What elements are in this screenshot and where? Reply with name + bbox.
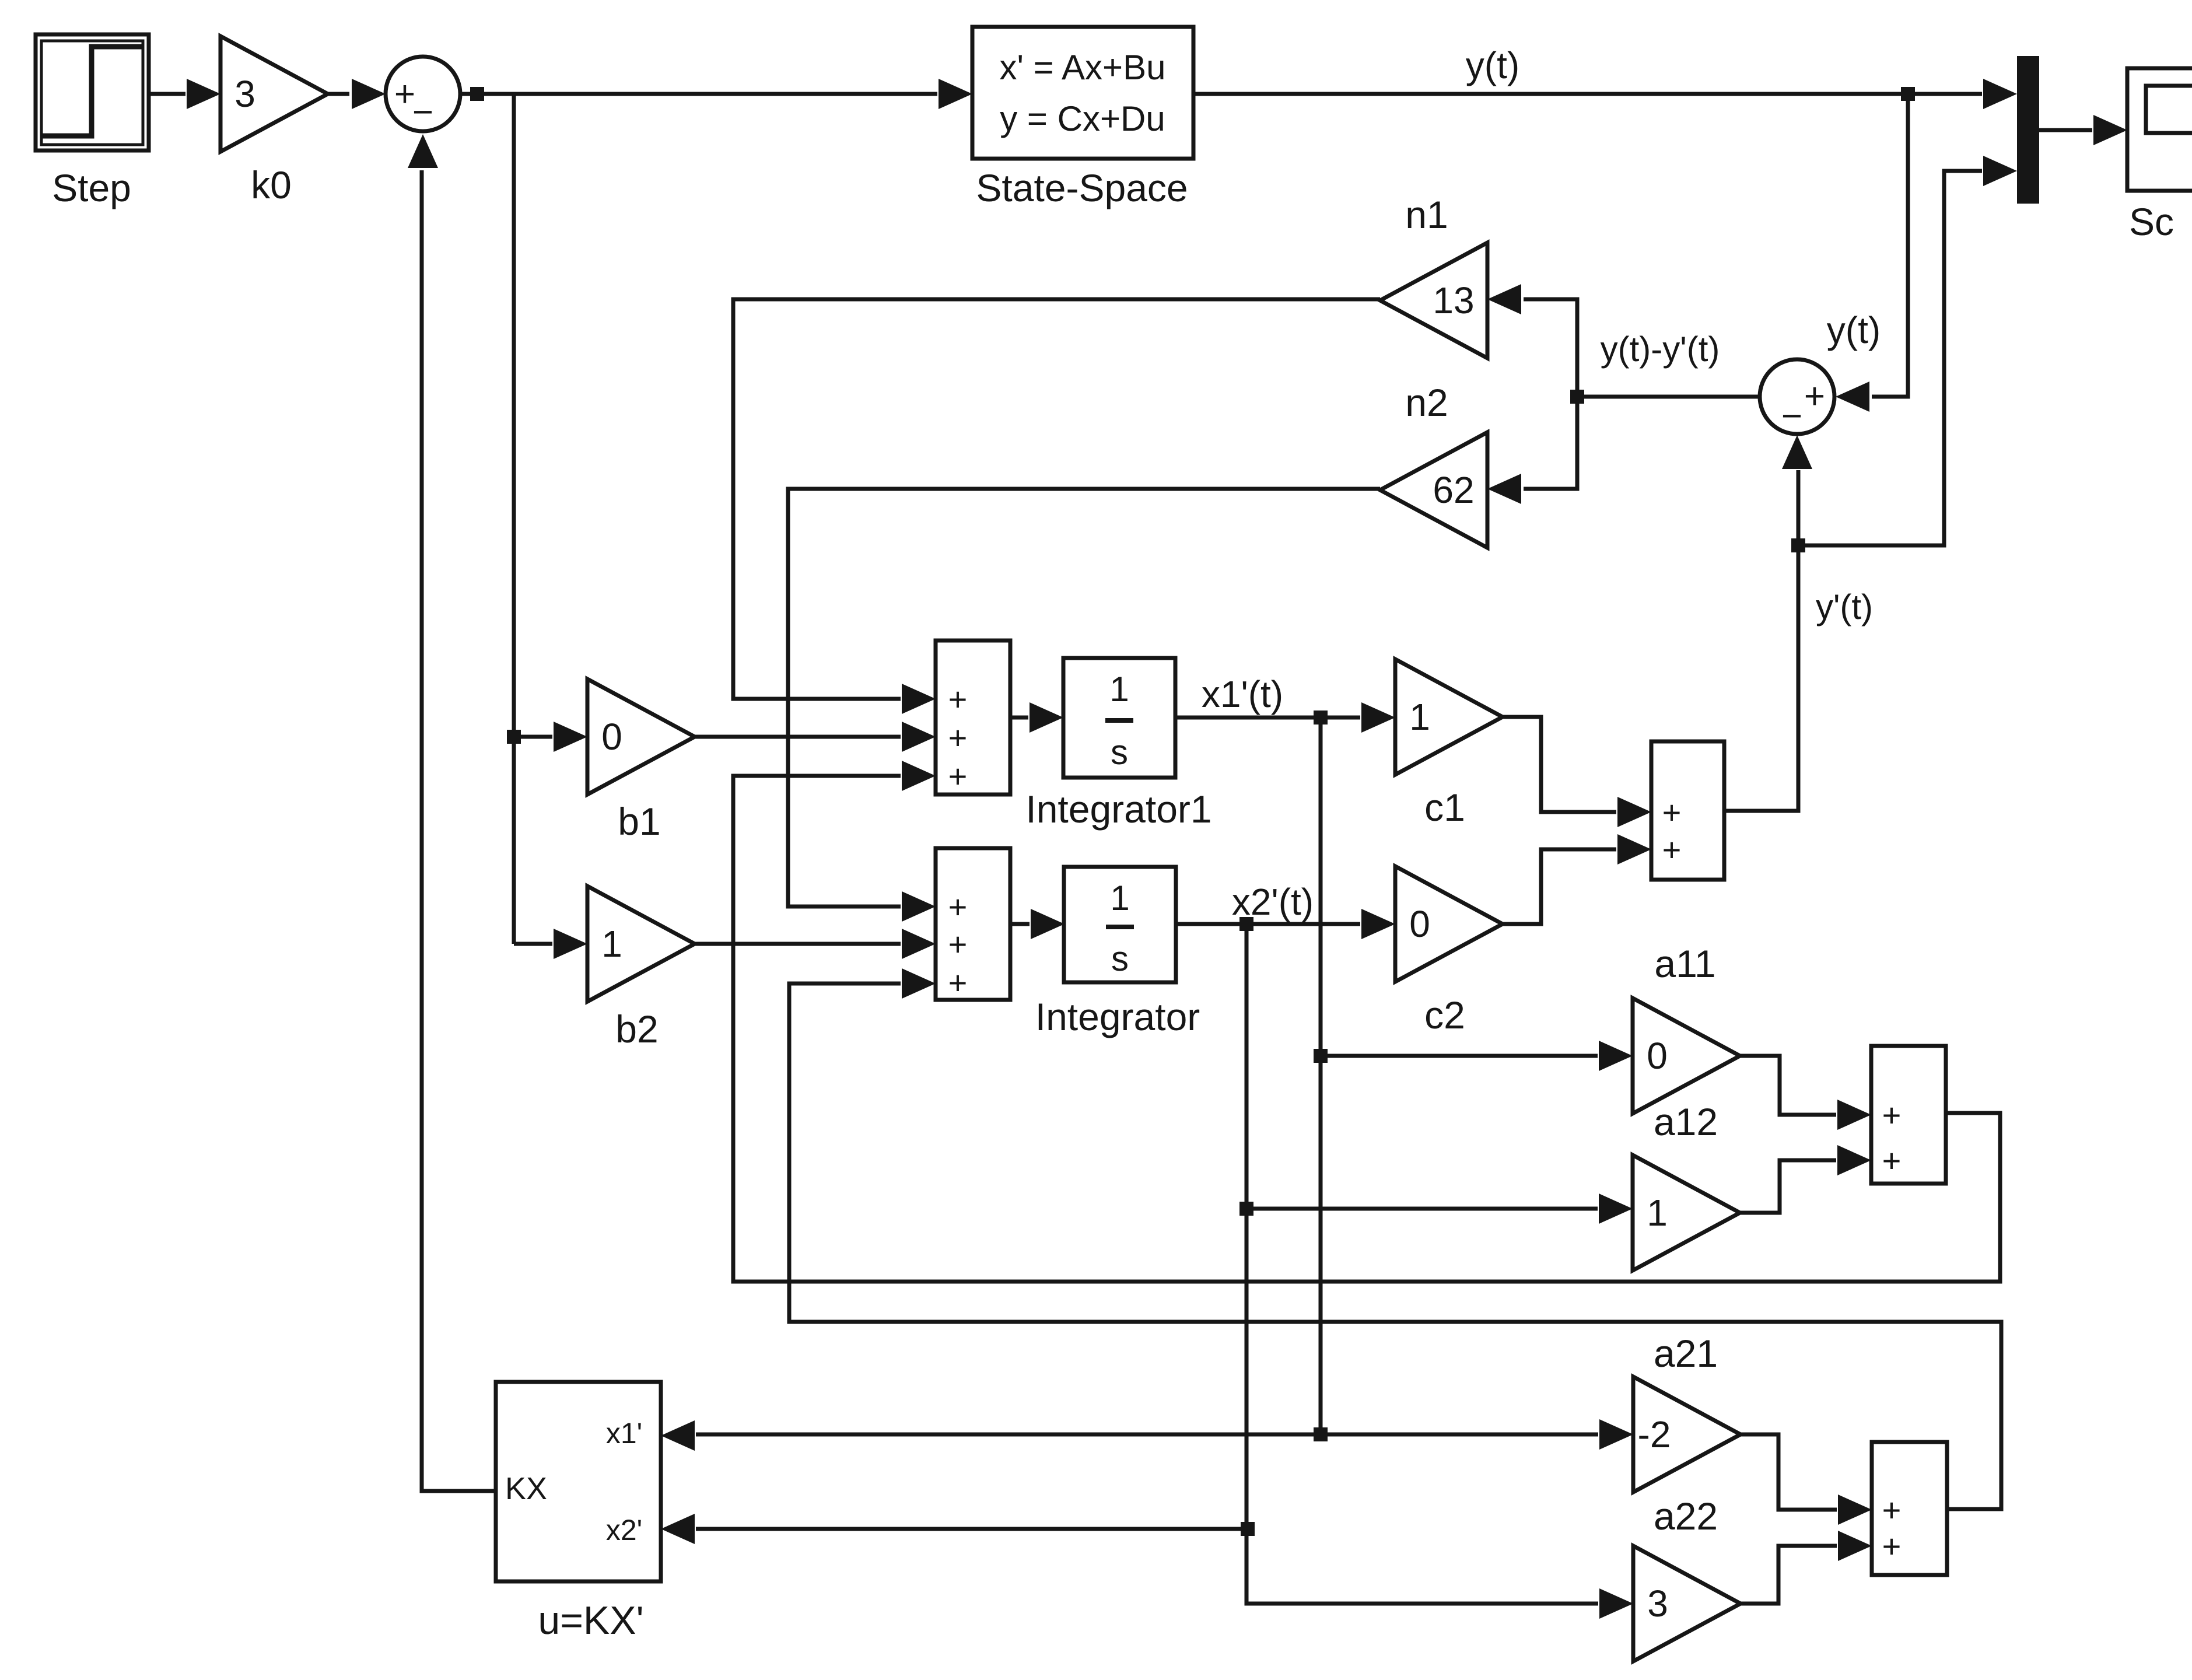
svg-text:s: s — [1111, 939, 1129, 978]
wire x1' tap to a11 — [1321, 1041, 1633, 1071]
svg-text:+: + — [948, 888, 968, 925]
svg-text:Sc: Sc — [2129, 200, 2174, 243]
svg-text:a12: a12 — [1654, 1100, 1718, 1143]
wire A2 to Integrator — [1010, 909, 1065, 939]
svg-text:x' = Ax+Bu: x' = Ax+Bu — [1000, 48, 1166, 87]
label a11 — [1654, 942, 1715, 985]
wire A1 to Integrator1 — [1010, 702, 1063, 733]
label b1 — [618, 800, 660, 843]
svg-text:Integrator: Integrator — [1035, 995, 1200, 1038]
wire c1 to adder A3 — [1503, 717, 1651, 827]
svg-text:c1: c1 — [1424, 786, 1465, 829]
svg-text:0: 0 — [601, 716, 622, 758]
block State-Space — [972, 27, 1193, 159]
svg-text:+: + — [1662, 794, 1682, 831]
wire b2 to adder A2 input2 — [695, 929, 936, 959]
svg-text:a21: a21 — [1654, 1332, 1718, 1375]
svg-text:+: + — [948, 719, 968, 756]
gain a22 value 3 — [1633, 1546, 1741, 1661]
gain b1 value 0 — [587, 679, 695, 794]
svg-text:x1'(t): x1'(t) — [1202, 673, 1283, 715]
wire y(t) branch down to sum S2 — [1836, 94, 1908, 412]
svg-text:u=KX': u=KX' — [538, 1598, 643, 1643]
svg-text:+: + — [948, 758, 968, 794]
label Scope — [2129, 200, 2174, 243]
label Integrator1 — [1025, 787, 1211, 831]
wire a22 to adder A5 — [1740, 1531, 1872, 1604]
gain b2 value 1 — [587, 886, 695, 1002]
svg-text:a11: a11 — [1654, 942, 1715, 985]
gain a11 value 0 — [1633, 998, 1740, 1114]
wire k0 to sum S1 — [328, 79, 386, 109]
adder A3 (++) c1+c2 — [1651, 741, 1724, 880]
wire feedback A4 to adder A1 input3 — [733, 761, 2000, 1282]
adder A2 (+++) — [936, 848, 1010, 1001]
svg-text:x1': x1' — [606, 1417, 642, 1450]
svg-text:a22: a22 — [1654, 1494, 1718, 1538]
wire Mux to Scope — [2039, 115, 2127, 145]
svg-text:Integrator1: Integrator1 — [1025, 787, 1211, 831]
svg-text:KX: KX — [505, 1471, 547, 1506]
svg-text:62: 62 — [1433, 469, 1474, 511]
wire y'(t) branch to Mux input2 — [1798, 156, 2017, 545]
wire x2' vertical branch to a22 — [1239, 924, 1633, 1619]
wire x2' tap to a12 — [1246, 1193, 1633, 1224]
label u=KX' — [538, 1598, 643, 1643]
svg-text:s: s — [1111, 733, 1128, 772]
svg-text:+: + — [1882, 1492, 1902, 1528]
wire y(t) main line to Mux — [1193, 79, 2017, 109]
svg-text:1: 1 — [1110, 878, 1129, 918]
svg-text:+: + — [948, 926, 968, 963]
svg-text:b2: b2 — [615, 1007, 658, 1051]
svg-text:State-Space: State-Space — [976, 166, 1188, 209]
mux Mux — [2017, 56, 2039, 204]
svg-text:+: + — [948, 681, 968, 717]
wire c2 to adder A3 — [1503, 834, 1651, 924]
label n1 — [1405, 193, 1448, 236]
svg-text:n1: n1 — [1405, 193, 1448, 236]
svg-text:b1: b1 — [618, 800, 660, 843]
label Integrator — [1035, 995, 1200, 1038]
svg-text:1: 1 — [601, 923, 622, 965]
sum S1 (+,-) — [386, 57, 460, 132]
svg-text:+: + — [948, 964, 968, 1001]
svg-text:y(t)-y'(t): y(t)-y'(t) — [1601, 330, 1720, 369]
svg-text:−: − — [1781, 396, 1802, 436]
label k0 — [251, 163, 292, 206]
label c1 — [1424, 786, 1465, 829]
svg-text:-2: -2 — [1638, 1413, 1671, 1455]
gain a21 value -2 — [1633, 1377, 1741, 1492]
wire S1 output to State-Space — [460, 79, 972, 109]
svg-text:c2: c2 — [1424, 993, 1465, 1037]
svg-text:3: 3 — [1647, 1583, 1668, 1625]
adder A4 (++) a11+a12 — [1871, 1046, 1946, 1184]
wire feedback A5 to adder A2 input3 — [789, 968, 2001, 1509]
svg-text:y(t): y(t) — [1466, 44, 1519, 86]
svg-text:y'(t): y'(t) — [1816, 587, 1873, 626]
wire a21 to adder A5 — [1740, 1434, 1872, 1525]
svg-text:x2': x2' — [606, 1514, 642, 1546]
svg-text:1: 1 — [1109, 670, 1129, 709]
svg-text:3: 3 — [234, 73, 255, 115]
label c2 — [1424, 993, 1465, 1037]
svg-text:x2'(t): x2'(t) — [1232, 881, 1314, 923]
label y'(t) — [1816, 587, 1873, 626]
gain a12 value 1 — [1633, 1155, 1740, 1270]
label a12 — [1654, 1100, 1718, 1143]
gain n2 value 62 — [1380, 432, 1487, 548]
label y(t) at S2 — [1827, 309, 1881, 351]
svg-text:+: + — [1882, 1097, 1902, 1133]
label y(t) top — [1466, 44, 1519, 86]
adder A1 (+++) — [936, 640, 1010, 794]
wire n2 output to adder A2 input1 — [788, 489, 1380, 922]
svg-text:n2: n2 — [1405, 381, 1448, 424]
label a21 — [1654, 1332, 1718, 1375]
wire a11 to adder A4 — [1740, 1056, 1871, 1130]
wire x2' line to gain c2 — [1176, 909, 1395, 939]
svg-text:y(t): y(t) — [1827, 309, 1881, 351]
svg-text:k0: k0 — [251, 163, 292, 206]
wire a12 to adder A4 — [1740, 1145, 1871, 1213]
wire n1 output to adder A1 input1 — [733, 299, 1380, 714]
label x1'(t) — [1202, 673, 1283, 715]
svg-text:+: + — [1882, 1142, 1902, 1179]
adder A5 (++) a21+a22 — [1872, 1442, 1947, 1575]
wire KX x2' input — [661, 1514, 1248, 1544]
svg-text:+: + — [1804, 376, 1825, 416]
svg-text:1: 1 — [1647, 1192, 1668, 1234]
block Step source — [36, 34, 149, 150]
wire S2 output to n1 n2 — [1487, 284, 1759, 504]
svg-text:−: − — [412, 92, 433, 132]
label a22 — [1654, 1494, 1718, 1538]
wire b1 to adder A1 input2 — [695, 722, 936, 752]
svg-text:0: 0 — [1409, 903, 1430, 945]
wire x1' line to gain c1 — [1175, 702, 1395, 733]
label b2 — [615, 1007, 658, 1051]
svg-text:13: 13 — [1433, 279, 1474, 321]
svg-text:0: 0 — [1647, 1035, 1668, 1077]
wire KX output feedback to S1 — [408, 134, 496, 1491]
gain c2 value 0 — [1395, 866, 1503, 982]
block Integrator 1/s — [1064, 867, 1176, 982]
label x2'(t) — [1232, 881, 1314, 923]
label y(t)-y'(t) — [1601, 330, 1720, 369]
svg-text:+: + — [1882, 1528, 1902, 1564]
wire branch u to b1 and b2 — [507, 94, 587, 959]
svg-text:1: 1 — [1409, 696, 1430, 738]
gain k0 value 3 — [220, 36, 328, 152]
label n2 — [1405, 381, 1448, 424]
block KX state feedback — [496, 1382, 661, 1581]
svg-text:y = Cx+Du: y = Cx+Du — [1000, 99, 1165, 138]
block Integrator1 1/s — [1063, 658, 1175, 778]
svg-text:Step: Step — [52, 166, 131, 209]
sum S2 (-,+) — [1760, 359, 1834, 436]
wire y'(t) from A3 up to S2 — [1724, 435, 1812, 811]
gain n1 value 13 — [1380, 243, 1487, 358]
block Scope — [2127, 68, 2192, 191]
label State-Space — [976, 166, 1188, 209]
gain c1 value 1 — [1395, 659, 1503, 775]
wire x1' vertical branch — [1314, 717, 1328, 1441]
wire Step to k0 — [149, 79, 220, 109]
wire x1' line KX and a21 — [661, 1419, 1633, 1451]
svg-text:+: + — [1662, 831, 1682, 868]
label Step — [52, 166, 131, 209]
